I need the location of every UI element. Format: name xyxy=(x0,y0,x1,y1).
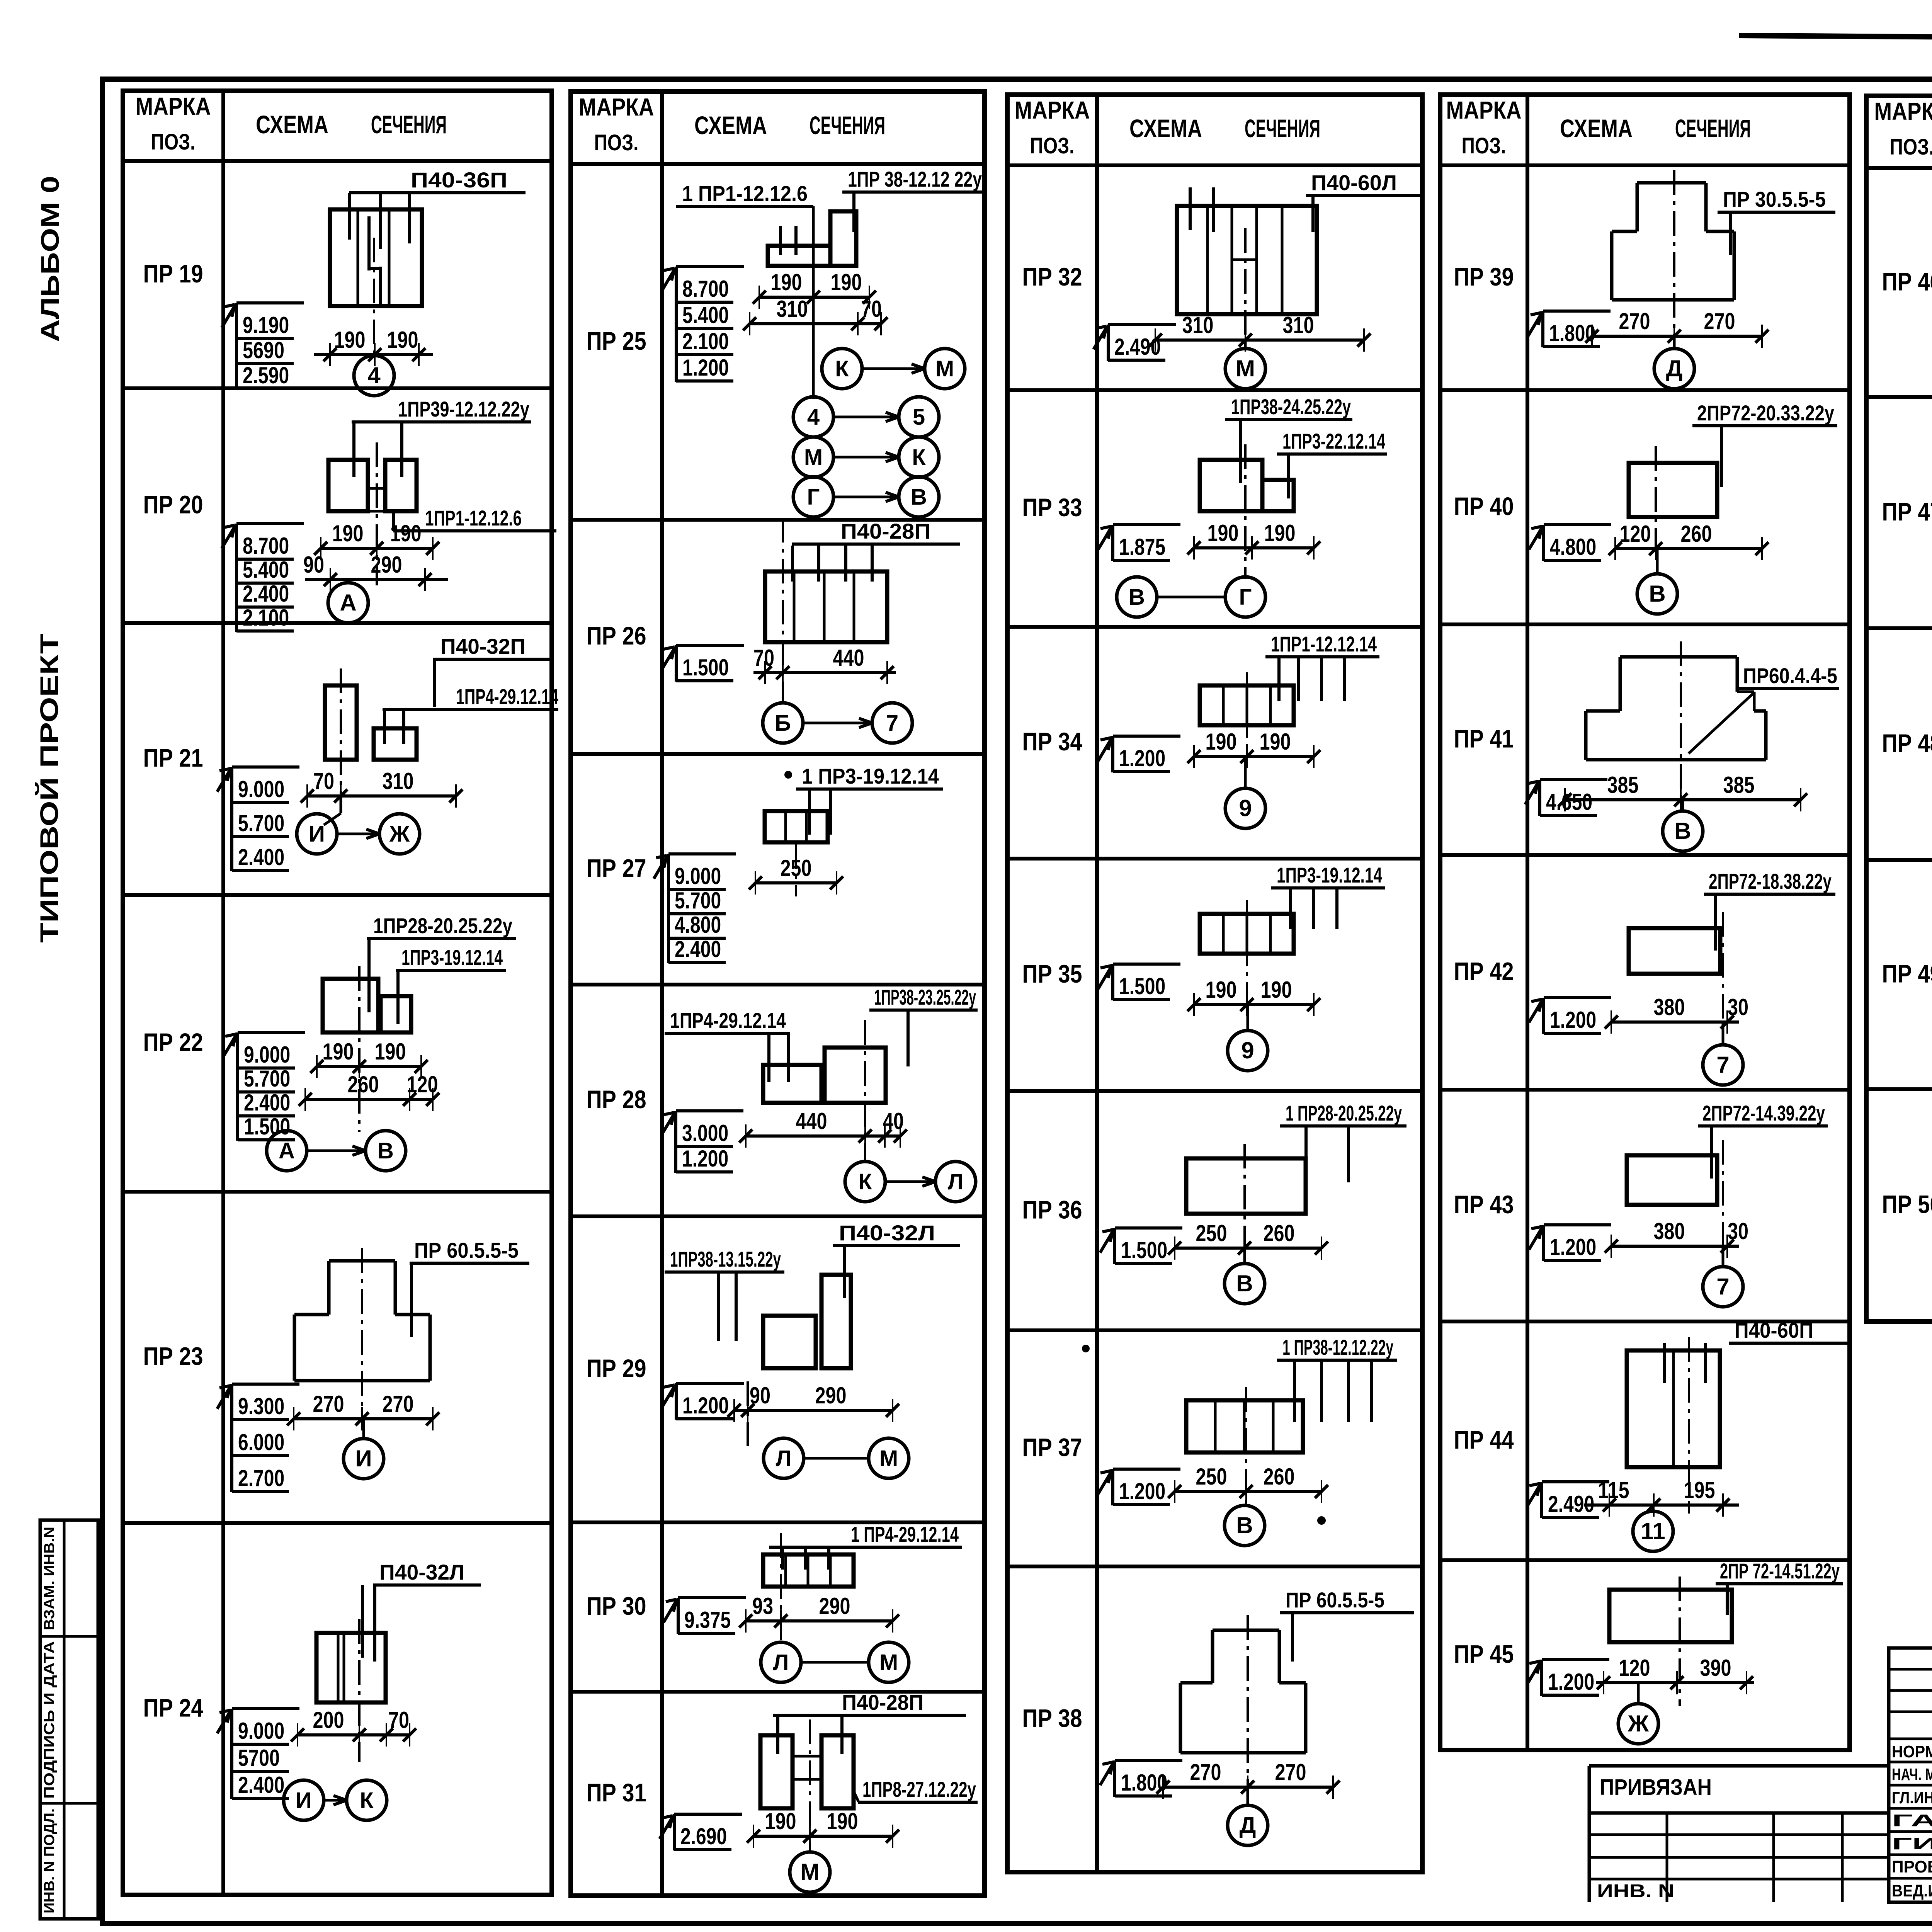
svg-text:4: 4 xyxy=(807,405,820,430)
svg-text:190: 190 xyxy=(831,269,862,295)
lintel ПР44 centerline xyxy=(1688,1337,1690,1514)
svg-text:190: 190 xyxy=(1206,729,1237,755)
svg-text:ПР 21: ПР 21 xyxy=(143,743,203,772)
svg-text:М: М xyxy=(879,1650,898,1675)
svg-text:190: 190 xyxy=(765,1808,796,1834)
svg-text:СХЕМА: СХЕМА xyxy=(1129,114,1202,143)
lintel ПР31 centerline xyxy=(809,1719,811,1853)
svg-text:МАРКА: МАРКА xyxy=(1015,96,1090,124)
svg-text:ИНВ. N ПОДЛ.: ИНВ. N ПОДЛ. xyxy=(41,1808,58,1913)
svg-text:5.700: 5.700 xyxy=(238,810,284,836)
svg-text:1ПР38-13.15.22у: 1ПР38-13.15.22у xyxy=(670,1247,781,1271)
dimension 250/260 ПР37 xyxy=(1168,1464,1328,1503)
elevation marks 1.500 xyxy=(1098,964,1180,1000)
svg-text:Л: Л xyxy=(773,1650,789,1675)
svg-text:СХЕМА: СХЕМА xyxy=(1560,114,1633,143)
svg-text:1ПР3-19.12.14: 1ПР3-19.12.14 xyxy=(1277,863,1382,887)
svg-text:ПОДПИСЬ И ДАТА: ПОДПИСЬ И ДАТА xyxy=(41,1641,58,1799)
svg-text:190: 190 xyxy=(1207,520,1239,546)
svg-text:260: 260 xyxy=(1264,1464,1295,1490)
svg-text:290: 290 xyxy=(371,552,402,578)
lintel ПР41 label ПР60.4.4-5 xyxy=(1739,663,1839,689)
lintel ПР37 hangers xyxy=(1293,1360,1296,1422)
lintel ПР24 beam section xyxy=(316,1633,386,1702)
svg-text:Л: Л xyxy=(776,1446,792,1471)
dimension 310/70 ПР25 xyxy=(743,296,888,335)
svg-text:1ПР38-24.25.22у: 1ПР38-24.25.22у xyxy=(1231,395,1351,419)
svg-text:9.190: 9.190 xyxy=(243,312,289,338)
svg-text:190: 190 xyxy=(375,1039,406,1065)
lintel ПР39 stepped beam section xyxy=(1612,183,1734,300)
svg-text:1.500: 1.500 xyxy=(1119,973,1165,999)
bottom-left margin stamp table xyxy=(40,1520,98,1919)
svg-text:1 ПР38-12.12.22у: 1 ПР38-12.12.22у xyxy=(1282,1335,1393,1359)
svg-text:70: 70 xyxy=(753,645,774,671)
svg-text:СЕЧЕНИЯ: СЕЧЕНИЯ xyxy=(810,111,885,139)
svg-text:190: 190 xyxy=(334,327,366,353)
svg-text:190: 190 xyxy=(771,269,802,295)
dimension 200/70 ПР24 xyxy=(291,1707,416,1747)
svg-text:ПРИВЯЗАН: ПРИВЯЗАН xyxy=(1600,1775,1712,1800)
lintel ПР27 label 1 ПР3-19.12.14 xyxy=(796,764,943,789)
lintel ПР26 label П40-28П xyxy=(792,519,960,544)
elevation marks 4.650 xyxy=(1525,780,1607,816)
svg-text:190: 190 xyxy=(827,1808,858,1834)
dimension 250/260 ПР36 xyxy=(1168,1220,1328,1260)
stray dot xyxy=(784,771,792,779)
svg-text:А: А xyxy=(279,1138,295,1163)
svg-text:Д: Д xyxy=(1240,1812,1256,1838)
elevation marks 1.200 xyxy=(1529,998,1611,1034)
svg-text:1ПР8-27.12.22у: 1ПР8-27.12.22у xyxy=(862,1777,976,1801)
axis circles Л М xyxy=(761,1642,909,1682)
lintel ПР42 label 2ПР72-18.38.22у xyxy=(1704,869,1835,894)
svg-text:ПРОВЕР.: ПРОВЕР. xyxy=(1892,1857,1932,1876)
table T2 frame xyxy=(571,92,985,1896)
svg-text:ГАП: ГАП xyxy=(1892,1811,1932,1830)
svg-text:190: 190 xyxy=(390,520,422,546)
svg-text:Ж: Ж xyxy=(389,821,410,847)
axis circles Л М xyxy=(764,1438,909,1478)
elevation marks 9.000/5.700/2.400 xyxy=(217,767,299,871)
lintel ПР27 centerline xyxy=(795,844,797,896)
svg-text:ПР 41: ПР 41 xyxy=(1454,724,1514,753)
lintel ПР33 label 1ПР3-22.12.14 xyxy=(1277,429,1387,454)
lintel ПР37 beam section xyxy=(1186,1400,1303,1452)
lintel ПР30 centerline xyxy=(780,1533,782,1645)
svg-text:385: 385 xyxy=(1723,772,1755,798)
lintel ПР27 hangers xyxy=(808,789,811,835)
dimension 385/385 ПР41 xyxy=(1558,772,1807,811)
svg-text:1.200: 1.200 xyxy=(1119,745,1165,771)
svg-text:380: 380 xyxy=(1654,1218,1685,1244)
svg-text:1ПР4-29.12.14: 1ПР4-29.12.14 xyxy=(670,1008,786,1032)
svg-text:ПР 23: ПР 23 xyxy=(143,1342,203,1371)
elevation marks 1.200 xyxy=(1098,736,1180,772)
axis circle 7 xyxy=(1703,1022,1743,1085)
svg-text:АЛЬБОМ 0: АЛЬБОМ 0 xyxy=(36,176,64,342)
svg-text:Г: Г xyxy=(807,485,820,510)
svg-text:ПР 42: ПР 42 xyxy=(1454,957,1514,986)
svg-text:НОРМОК.: НОРМОК. xyxy=(1892,1742,1932,1761)
svg-text:1.800: 1.800 xyxy=(1549,320,1595,346)
elevation marks 1.800 xyxy=(1528,311,1611,347)
lintel ПР44 label П40-60П xyxy=(1729,1318,1851,1343)
dimension 190/190 ПР19 xyxy=(314,327,433,366)
svg-text:П40-36П: П40-36П xyxy=(411,168,507,192)
elevation marks 1.200 xyxy=(662,1383,744,1420)
elevation marks 9.375 xyxy=(663,1598,746,1634)
svg-text:МАРКА: МАРКА xyxy=(1874,97,1932,125)
svg-text:СЕЧЕНИЯ: СЕЧЕНИЯ xyxy=(1245,114,1320,143)
svg-text:ПР 29: ПР 29 xyxy=(587,1354,646,1383)
svg-text:М: М xyxy=(879,1446,898,1471)
svg-text:2.400: 2.400 xyxy=(243,581,289,607)
dimension 120/390 ПР45 xyxy=(1596,1655,1754,1694)
lintel ПР22 beam sections xyxy=(323,979,378,1032)
svg-text:П40-32П: П40-32П xyxy=(440,634,526,658)
svg-text:ПР60.4.4-5: ПР60.4.4-5 xyxy=(1743,663,1837,688)
svg-text:А: А xyxy=(340,590,356,616)
svg-text:ПР 60.5.5-5: ПР 60.5.5-5 xyxy=(1286,1588,1384,1612)
lintel ПР37 label 1 ПР38-12.12.22у xyxy=(1277,1335,1397,1360)
lintel ПР45 beam section xyxy=(1609,1590,1732,1642)
svg-text:Г: Г xyxy=(1239,585,1252,610)
elevation marks 1.500 xyxy=(662,645,744,682)
elevation marks 9.000/5700/2.400 xyxy=(217,1709,299,1799)
lintel ПР34 hangers xyxy=(1277,657,1281,701)
svg-text:ПОЗ.: ПОЗ. xyxy=(594,130,639,155)
svg-text:7: 7 xyxy=(1716,1274,1729,1299)
svg-text:3.000: 3.000 xyxy=(682,1120,728,1146)
lintel ПР42 beam section xyxy=(1629,928,1720,974)
lintel ПР42 centerline xyxy=(1722,912,1724,1022)
lintel ПР45 centerline xyxy=(1679,1577,1681,1706)
svg-text:1ПР 38-12.12 22у: 1ПР 38-12.12 22у xyxy=(848,167,982,191)
svg-text:310: 310 xyxy=(383,768,414,794)
lintel ПР30 hangers xyxy=(781,1547,784,1570)
svg-text:7: 7 xyxy=(886,711,898,736)
svg-text:1ПР38-23.25.22у: 1ПР38-23.25.22у xyxy=(874,985,976,1009)
svg-text:30: 30 xyxy=(1728,1218,1748,1244)
lintel ПР25 label 1 ПР1-12.12.6 xyxy=(676,181,813,206)
svg-text:1ПР4-29.12.14: 1ПР4-29.12.14 xyxy=(456,684,558,709)
svg-text:К: К xyxy=(360,1788,374,1813)
svg-text:ПР 19: ПР 19 xyxy=(143,259,203,288)
svg-text:4.800: 4.800 xyxy=(675,912,721,938)
svg-text:190: 190 xyxy=(332,520,364,546)
elevation marks 9.000/5.700/2.400/1.500 xyxy=(223,1032,305,1141)
svg-text:И: И xyxy=(355,1446,372,1471)
svg-text:1 ПР3-19.12.14: 1 ПР3-19.12.14 xyxy=(802,764,939,788)
lintel ПР41 stepped beam section xyxy=(1586,657,1766,760)
table T4 frame xyxy=(1440,95,1850,1750)
svg-text:270: 270 xyxy=(383,1391,414,1417)
svg-text:ПР 49: ПР 49 xyxy=(1882,959,1932,988)
svg-text:В: В xyxy=(1649,581,1665,607)
axis circle В xyxy=(1663,800,1703,851)
svg-text:И: И xyxy=(296,1788,312,1813)
svg-text:5: 5 xyxy=(913,405,925,430)
svg-text:П40-60Л: П40-60Л xyxy=(1311,170,1397,195)
lintel ПР21 hangers xyxy=(383,709,386,744)
svg-text:1ПР3-19.12.14: 1ПР3-19.12.14 xyxy=(401,945,503,969)
dimension 70/310 ПР21 xyxy=(301,768,463,808)
svg-text:70: 70 xyxy=(388,1707,409,1733)
dimension 190/190 ПР25 xyxy=(753,269,876,309)
svg-text:ПР 30: ПР 30 xyxy=(587,1592,646,1620)
svg-text:310: 310 xyxy=(777,296,808,322)
svg-text:П40-28П: П40-28П xyxy=(842,1690,923,1714)
lintel ПР32 centerline xyxy=(1244,228,1247,340)
svg-text:7: 7 xyxy=(1716,1052,1729,1078)
lintel ПР37 centerline xyxy=(1245,1387,1247,1508)
svg-text:380: 380 xyxy=(1654,994,1685,1020)
lintel ПР30 beam section xyxy=(763,1554,854,1587)
svg-text:310: 310 xyxy=(1283,312,1314,338)
svg-text:190: 190 xyxy=(1260,729,1291,755)
svg-text:ИНВ. N: ИНВ. N xyxy=(1597,1881,1674,1901)
elevation marks 2.490 xyxy=(1094,325,1176,361)
lintel ПР31 label 1ПР8-27.12.22у xyxy=(858,1777,978,1802)
svg-text:8.700: 8.700 xyxy=(243,533,289,559)
lintel ПР26 centerline xyxy=(782,518,784,703)
wire to axis И xyxy=(340,796,342,813)
svg-text:ПР 37: ПР 37 xyxy=(1022,1433,1082,1462)
lintel ПР20 label 1ПР39-12.12.22у xyxy=(352,397,531,422)
svg-text:ПР 33: ПР 33 xyxy=(1022,493,1082,522)
axis circles И Ж xyxy=(297,814,420,854)
svg-text:5700: 5700 xyxy=(238,1745,280,1771)
svg-text:СЕЧЕНИЯ: СЕЧЕНИЯ xyxy=(1675,114,1751,143)
svg-text:5690: 5690 xyxy=(243,337,284,363)
svg-text:190: 190 xyxy=(387,327,418,353)
svg-text:2ПР 72-14.51.22у: 2ПР 72-14.51.22у xyxy=(1720,1559,1840,1583)
lintel ПР29 label 1ПР38-13.15.22у xyxy=(665,1247,784,1272)
svg-text:40: 40 xyxy=(883,1108,904,1134)
lintel ПР36 label 1 ПР28-20.25.22у xyxy=(1280,1101,1406,1126)
lintel ПР21 label П40-32П xyxy=(433,634,553,659)
axis circles М К xyxy=(793,437,939,477)
lintel ПР31 hangers xyxy=(776,1715,779,1754)
svg-text:270: 270 xyxy=(1190,1759,1221,1785)
scan smudge line top xyxy=(1739,36,1932,37)
svg-text:385: 385 xyxy=(1607,772,1639,798)
svg-text:440: 440 xyxy=(796,1108,827,1134)
lintel ПР29 label П40-32Л xyxy=(833,1221,960,1246)
svg-text:НАЧ. МАСТ.: НАЧ. МАСТ. xyxy=(1892,1765,1932,1784)
svg-text:ПР 35: ПР 35 xyxy=(1022,959,1082,988)
svg-text:В: В xyxy=(1129,585,1145,610)
lintel ПР29 hangers xyxy=(717,1272,720,1341)
svg-text:90: 90 xyxy=(750,1383,770,1408)
svg-text:120: 120 xyxy=(407,1071,438,1097)
elevation marks 2.490 xyxy=(1527,1482,1609,1518)
svg-text:ПР 36: ПР 36 xyxy=(1022,1196,1082,1224)
svg-text:1 ПР4-29.12.14: 1 ПР4-29.12.14 xyxy=(851,1522,959,1546)
lintel ПР25 label 1ПР 38-12.12 22у xyxy=(842,167,983,192)
lintel ПР36 beam section xyxy=(1186,1158,1306,1214)
svg-text:9.000: 9.000 xyxy=(238,1718,284,1744)
svg-text:270: 270 xyxy=(1619,308,1650,334)
svg-text:ПР 22: ПР 22 xyxy=(143,1028,203,1056)
svg-text:П40-32Л: П40-32Л xyxy=(379,1560,464,1584)
svg-text:ГИП: ГИП xyxy=(1892,1834,1932,1853)
axis circle Ж xyxy=(1618,1683,1658,1744)
title block Привязан xyxy=(1589,1766,1889,1902)
svg-text:200: 200 xyxy=(313,1707,344,1733)
lintel ПР40 label 2ПР72-20.33.22у xyxy=(1692,401,1837,426)
svg-text:1ПР3-22.12.14: 1ПР3-22.12.14 xyxy=(1282,429,1385,453)
lintel ПР24 hangers xyxy=(373,1585,376,1662)
elevation marks 2.690 xyxy=(660,1814,742,1850)
svg-text:9: 9 xyxy=(1239,795,1252,821)
svg-text:2.100: 2.100 xyxy=(682,328,729,354)
lintel ПР19 label П40-36П xyxy=(349,168,526,193)
lintel ПР39 centerline xyxy=(1673,170,1675,336)
lintel ПР33 beam sections xyxy=(1200,460,1262,511)
svg-text:М: М xyxy=(800,1859,820,1885)
lintel ПР27 beam section xyxy=(765,811,828,842)
lintel ПР28 label 1ПР4-29.12.14 xyxy=(665,1008,790,1033)
lintel ПР43 label 2ПР72-14.39.22у xyxy=(1698,1101,1828,1126)
svg-text:2.590: 2.590 xyxy=(243,362,289,388)
dimension 70/440 ПР26 xyxy=(753,645,896,684)
svg-text:П40-28П: П40-28П xyxy=(841,519,930,543)
svg-text:К: К xyxy=(912,445,926,470)
svg-text:ПР 38: ПР 38 xyxy=(1022,1704,1082,1733)
leader diagonal ПР41 xyxy=(1689,692,1754,753)
lintel ПР24 label П40-32Л xyxy=(373,1560,481,1585)
svg-text:290: 290 xyxy=(819,1593,850,1619)
svg-text:ВЕД.ИНЖ: ВЕД.ИНЖ xyxy=(1892,1881,1932,1900)
lintel ПР43 centerline xyxy=(1722,1140,1724,1246)
axis circle 9 xyxy=(1228,1005,1268,1071)
table T3 frame xyxy=(1007,95,1422,1872)
svg-text:2.100: 2.100 xyxy=(243,605,289,631)
svg-text:1.200: 1.200 xyxy=(682,1146,728,1172)
svg-text:1.200: 1.200 xyxy=(682,1393,729,1418)
dimension 380/30 ПР42 xyxy=(1605,994,1748,1034)
lintel ПР21 centerline xyxy=(340,668,342,797)
svg-text:ПР 47: ПР 47 xyxy=(1882,497,1932,526)
lintel ПР19 beam section xyxy=(330,209,422,306)
elevation marks 9.190/5690/2.590 xyxy=(222,303,304,389)
svg-text:270: 270 xyxy=(313,1391,344,1417)
dimension 250 ПР27 xyxy=(749,855,843,895)
svg-text:СХЕМА: СХЕМА xyxy=(256,110,328,139)
svg-text:1.500: 1.500 xyxy=(244,1114,290,1139)
svg-text:1 ПР28-20.25.22у: 1 ПР28-20.25.22у xyxy=(1286,1101,1402,1125)
svg-text:К: К xyxy=(835,356,849,381)
dimension 440/40 ПР28 xyxy=(739,1108,907,1148)
svg-text:250: 250 xyxy=(781,855,812,881)
dimension 260/120 ПР22 xyxy=(299,1071,439,1111)
axis circle М xyxy=(790,1852,830,1892)
svg-text:МАРКА: МАРКА xyxy=(136,92,211,120)
svg-text:ПР 44: ПР 44 xyxy=(1454,1425,1514,1454)
svg-text:190: 190 xyxy=(1264,520,1296,546)
svg-text:5.400: 5.400 xyxy=(682,302,729,328)
lintel ПР26 beam section xyxy=(765,571,887,642)
axis circle В xyxy=(1225,1505,1265,1546)
axis circle 4 xyxy=(354,355,394,396)
svg-text:190: 190 xyxy=(323,1039,354,1065)
svg-text:СЕЧЕНИЯ: СЕЧЕНИЯ xyxy=(371,110,447,139)
lintel ПР38 label ПР 60.5.5-5 xyxy=(1280,1588,1414,1613)
svg-text:МАРКА: МАРКА xyxy=(579,93,654,121)
axis circles Б 7 xyxy=(763,703,912,743)
lintel ПР44 hangers xyxy=(1663,1343,1666,1383)
svg-text:ПОЗ.: ПОЗ. xyxy=(1890,134,1932,160)
lintel ПР34 label 1ПР1-12.12.14 xyxy=(1265,632,1379,657)
svg-text:Ж: Ж xyxy=(1628,1711,1649,1736)
lintel ПР26 hangers xyxy=(791,546,794,582)
lintel ПР21 beam sections xyxy=(325,685,357,760)
dimension 190/190 ПР22 xyxy=(310,1039,428,1078)
lintel ПР23 centerline xyxy=(361,1248,363,1419)
svg-text:ПР 45: ПР 45 xyxy=(1454,1640,1514,1668)
svg-text:1ПР28-20.25.22у: 1ПР28-20.25.22у xyxy=(373,913,512,938)
lintel ПР38 stepped beam section xyxy=(1180,1630,1306,1753)
svg-text:70: 70 xyxy=(861,296,882,322)
svg-text:270: 270 xyxy=(1704,308,1735,334)
svg-text:ПОЗ.: ПОЗ. xyxy=(151,129,196,155)
dimension 115/195 ПР44 xyxy=(1584,1477,1739,1517)
lintel ПР28 label 1ПР38-23.25.22у xyxy=(869,985,978,1010)
svg-text:9.000: 9.000 xyxy=(238,776,284,802)
svg-text:1.200: 1.200 xyxy=(1550,1007,1596,1033)
svg-text:М: М xyxy=(804,445,823,470)
lintel ПР22 label 1ПР3-19.12.14 xyxy=(396,945,506,970)
axis circle В xyxy=(1637,549,1677,614)
lintel ПР20 label 1ПР1-12.12.6 xyxy=(393,506,556,531)
lintel ПР21 label 1ПР4-29.12.14 xyxy=(383,684,558,709)
axis circles К М xyxy=(822,349,965,389)
svg-text:1.200: 1.200 xyxy=(1119,1478,1165,1504)
lintel ПР22 centerline xyxy=(358,966,361,1132)
svg-text:П40-32Л: П40-32Л xyxy=(839,1221,935,1245)
elevation marks 1.875 xyxy=(1098,525,1180,561)
stray dot xyxy=(1082,1345,1090,1352)
svg-text:120: 120 xyxy=(1620,521,1651,547)
svg-text:ПР 48: ПР 48 xyxy=(1882,729,1932,757)
lintel ПР38 centerline xyxy=(1247,1615,1249,1787)
lintel ПР32 hangers xyxy=(1189,187,1192,230)
svg-text:П40-60П: П40-60П xyxy=(1735,1318,1813,1342)
svg-text:2.400: 2.400 xyxy=(238,844,284,870)
svg-text:260: 260 xyxy=(1681,521,1712,547)
svg-text:В: В xyxy=(1236,1270,1253,1296)
lintel ПР35 beam section xyxy=(1200,914,1294,954)
svg-text:440: 440 xyxy=(833,645,864,671)
lintel ПР25 beam sections xyxy=(768,246,830,266)
lintel ПР23 stepped beam section xyxy=(294,1261,430,1381)
lintel ПР40 centerline xyxy=(1655,446,1657,549)
lintel ПР32 beam section xyxy=(1177,206,1317,314)
svg-text:К: К xyxy=(858,1169,872,1194)
axis circle А xyxy=(328,583,368,623)
svg-text:2.400: 2.400 xyxy=(244,1090,290,1116)
svg-text:В: В xyxy=(378,1138,394,1163)
svg-text:ПОЗ.: ПОЗ. xyxy=(1462,133,1506,158)
elevation marks 1.200 xyxy=(1098,1469,1180,1505)
svg-text:СХЕМА: СХЕМА xyxy=(694,111,767,139)
svg-text:120: 120 xyxy=(1619,1655,1650,1681)
svg-text:ПР 24: ПР 24 xyxy=(143,1694,203,1722)
svg-text:ПР 27: ПР 27 xyxy=(587,854,646,883)
axis circle 9 xyxy=(1225,757,1265,828)
